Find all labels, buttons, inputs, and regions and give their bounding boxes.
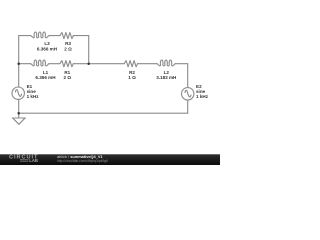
wire left vertical top [18,36,20,88]
svg-text:R3: R3 [65,41,71,46]
source E1 [12,87,24,99]
wire R2 to L2 [138,63,157,65]
wire between L3 and R3 [49,35,60,37]
wire between L1 and R1 [49,63,60,65]
wire right vertical to E2 [187,64,189,88]
source E2 [182,88,194,100]
wire R1 to R2 [73,63,124,65]
inductor L1 [30,60,49,66]
node junction ground [17,112,20,115]
inductor L2 [157,60,176,66]
wire right vertical of top loop [88,36,90,64]
node junction left-middle [17,62,20,64]
wire top branch lead-in [19,35,31,37]
svg-text:3.183 mH: 3.183 mH [156,75,177,80]
svg-text:6.366 mH: 6.366 mH [35,75,56,80]
ground [12,118,25,124]
wire left vertical below E1 [18,99,20,117]
node junction top-right [87,62,90,64]
svg-text:LAB: LAB [29,158,38,163]
svg-text:1 Ω: 1 Ω [128,75,136,80]
svg-text:2 Ω: 2 Ω [64,46,72,51]
wire R3 to corner [73,35,88,37]
resistor R3 [60,33,73,39]
wire middle branch lead-in [19,63,31,65]
footer bar [0,154,220,165]
wire L2 to right corner [176,63,188,65]
svg-text:L3: L3 [44,41,50,46]
svg-text:6.366 mH: 6.366 mH [37,46,58,51]
resistor R1 [60,61,73,67]
resistor R2 [124,61,137,67]
svg-text:1 kHz: 1 kHz [196,94,209,99]
svg-text:2 Ω: 2 Ω [64,75,72,80]
wire below E2 [187,100,189,113]
wire bottom rail [19,112,188,114]
svg-text:1 kHz: 1 kHz [27,94,40,99]
CircuitLab logo [9,155,38,164]
svg-text:http://circuitlab.com/c8ejnq3q: http://circuitlab.com/c8ejnq3qrk9g6 [57,159,108,163]
inductor L3 [30,32,49,38]
